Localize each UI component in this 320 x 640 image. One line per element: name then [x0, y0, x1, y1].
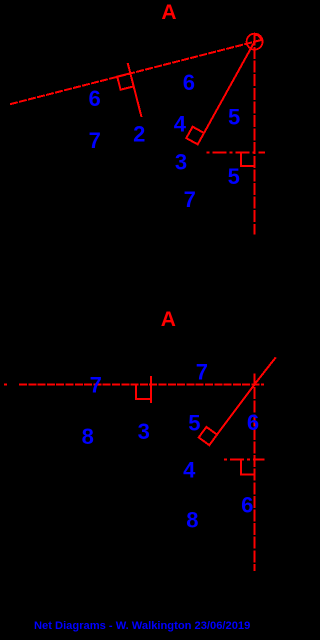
- wire: long base line L1: [10, 40, 262, 104]
- svg-text:8: 8: [82, 424, 94, 449]
- wire: vertical dashed line V1: [254, 33, 256, 234]
- right-angle mark S3' at H2'/V2: [241, 460, 255, 475]
- wire: vertical dashed line V2: [253, 374, 255, 571]
- svg-text:6: 6: [247, 410, 259, 435]
- wire: perpendicular foot line P1: [128, 63, 142, 117]
- wire: slant altitude lower segment (fig2): [217, 385, 254, 435]
- svg-text:3: 3: [138, 419, 150, 444]
- svg-text:7: 7: [184, 187, 196, 212]
- svg-text:6: 6: [241, 493, 253, 518]
- wire: long horizontal base line HL2: [19, 384, 264, 386]
- svg-text:A: A: [161, 1, 176, 24]
- wire: leading dot of HL2: [4, 384, 7, 386]
- svg-text:5: 5: [228, 164, 240, 189]
- right-angle mark S1 on L1: [117, 73, 133, 89]
- svg-text:6: 6: [88, 86, 100, 111]
- angle arc inside vertex circle: [255, 35, 261, 41]
- wire: horizontal dash-dot line H1: [207, 151, 266, 153]
- svg-text:7: 7: [90, 373, 102, 398]
- right-angle mark S2 (rotated square): [186, 127, 204, 145]
- svg-text:4: 4: [183, 458, 196, 483]
- svg-text:7: 7: [89, 128, 101, 153]
- svg-text:7: 7: [196, 359, 208, 384]
- svg-text:5: 5: [188, 410, 200, 435]
- right-angle mark S1' on HL2: [136, 385, 151, 400]
- svg-text:3: 3: [175, 150, 187, 175]
- svg-text:5: 5: [228, 105, 240, 130]
- svg-text:A: A: [161, 308, 176, 331]
- wire: slant line upper segment (fig2): [254, 357, 275, 384]
- right-angle mark S2' (rotated square): [199, 427, 217, 445]
- vertex circle at A (fig1): [247, 34, 263, 50]
- svg-text:6: 6: [183, 70, 195, 95]
- wire: horizontal dash-dot line H2': [224, 459, 265, 461]
- svg-text:8: 8: [186, 508, 198, 533]
- wire: slant altitude L2 from circle to right-angle mark: [204, 42, 255, 133]
- wire: perpendicular foot line P2: [150, 376, 152, 403]
- right-angle mark S3 at H1/V1: [241, 152, 255, 166]
- svg-text:4: 4: [174, 112, 187, 137]
- svg-text:Net Diagrams - W. Walkington 2: Net Diagrams - W. Walkington 23/06/2019: [34, 620, 250, 632]
- svg-text:2: 2: [133, 122, 145, 147]
